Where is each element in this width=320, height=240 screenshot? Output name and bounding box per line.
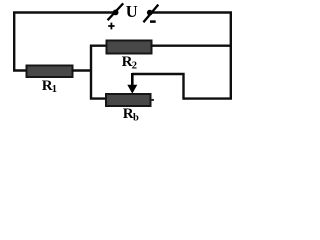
wire Rb right stub <box>151 99 154 101</box>
source terminal - (dot and slash) <box>143 5 158 23</box>
label - <box>150 20 156 23</box>
svg-text:2: 2 <box>132 60 137 71</box>
wire top-left segment + left vertical + R1 left lead <box>14 13 114 71</box>
label + <box>108 23 114 30</box>
label R1 <box>42 78 57 95</box>
wire R1 right lead to node <box>72 69 93 71</box>
source terminal + (dot and slash) <box>108 3 124 20</box>
svg-text:1: 1 <box>52 84 57 95</box>
potentiometer wiper arrow <box>127 73 137 94</box>
svg-text:b: b <box>133 112 139 123</box>
wire top-right segment + outer right vertical + bottom-right <box>151 13 231 99</box>
wire inner-left vertical with R2 and Rb leads <box>91 46 107 99</box>
svg-text:U: U <box>126 2 138 21</box>
resistor R2 <box>107 41 152 54</box>
resistor Rb <box>106 94 151 106</box>
label Rb <box>123 106 139 123</box>
wire R2 right lead to outer right <box>151 45 232 47</box>
wire wiper step: up and left to arrow <box>132 74 183 100</box>
resistor R1 <box>27 66 73 78</box>
label R2 <box>122 54 137 71</box>
